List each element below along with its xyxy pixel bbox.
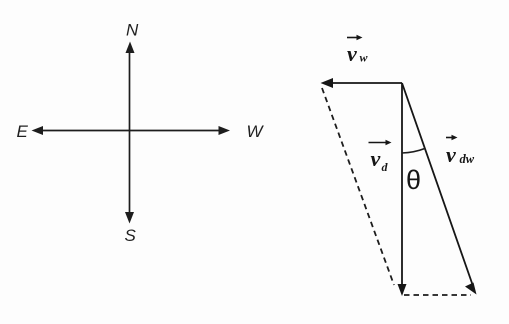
svg-text:W: W (247, 122, 265, 141)
svg-text:E: E (17, 122, 29, 141)
compass north arrowhead (126, 42, 135, 54)
svg-text:v: v (347, 41, 357, 66)
svg-text:d: d (382, 160, 389, 174)
vector v_d shaft (vertical, pointing down) (401, 83, 403, 287)
v_d arrowhead (398, 284, 407, 296)
dashed construction line parallel to v_dw (from v_w tip to v_d tip) (322, 88, 394, 285)
v_dw arrowhead (465, 283, 477, 295)
label vector v_w (347, 35, 369, 66)
label vector v_d (369, 140, 392, 174)
vector v_dw shaft (diagonal, pointing down-right) (402, 83, 473, 286)
svg-text:θ: θ (406, 165, 421, 195)
label vector v_dw (446, 135, 475, 167)
svg-text:v: v (371, 146, 381, 171)
svg-text:N: N (126, 21, 139, 40)
svg-text:v: v (446, 142, 456, 167)
compass west arrowhead (right) (219, 126, 231, 135)
compass vertical axis shaft (129, 48, 131, 217)
vector v_w shaft (top horizontal, pointing left) (331, 82, 402, 84)
svg-text:dw: dw (460, 152, 475, 166)
v_w arrowhead (321, 78, 334, 88)
angle arc for theta at vertex (402, 148, 426, 153)
compass east arrowhead (left) (32, 126, 44, 135)
svg-text:S: S (125, 226, 137, 245)
compass south arrowhead (125, 212, 134, 224)
compass horizontal axis shaft (37, 130, 224, 132)
svg-text:w: w (360, 51, 369, 65)
dashed construction line parallel to v_w (bottom) (404, 294, 471, 296)
